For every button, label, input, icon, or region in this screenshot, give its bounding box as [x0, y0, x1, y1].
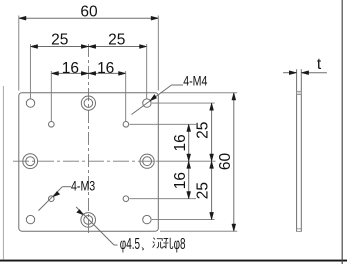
leader counterbore: diagonal line — [76, 207, 114, 245]
hole M3 upper-right — [123, 122, 129, 128]
leader counterbore: horizontal tail — [114, 244, 118, 246]
dimension 60 top: line — [19, 17, 159, 19]
label Chinese char chen (sink) — [153, 238, 164, 248]
dimension 25 vertical top: arrows — [210, 103, 214, 110]
dimension 16: center arrows — [81, 71, 88, 75]
hole M3 lower-left — [49, 196, 55, 202]
dimension 16: right arrow — [119, 71, 126, 75]
dimension 16: left extension line — [50, 71, 52, 121]
side view bar top cap — [297, 91, 302, 94]
hole M4 top-left — [26, 99, 34, 107]
svg-text:φ8: φ8 — [174, 235, 186, 253]
vertical centerline — [88, 44, 90, 235]
dimension 60 top: right arrow — [151, 16, 158, 20]
plate outline — [19, 93, 159, 231]
svg-text:4-M3: 4-M3 — [71, 178, 95, 194]
svg-text:φ4.5: φ4.5 — [120, 235, 140, 253]
counterbore hole top — [81, 96, 95, 110]
counterbore hole right — [140, 154, 154, 168]
dimension 16: right extension line — [125, 71, 127, 121]
svg-text:16: 16 — [97, 60, 114, 77]
svg-text:4-M4: 4-M4 — [183, 73, 207, 89]
svg-text:25: 25 — [195, 182, 212, 199]
dimension 25: left arrow — [30, 45, 37, 49]
leader 4-M3: horizontal tail — [62, 186, 71, 188]
svg-text:16: 16 — [172, 134, 189, 151]
dimension 60 vertical: arrows — [232, 93, 236, 100]
hole M4 bottom-left — [26, 215, 34, 223]
dimension 25: left extension line — [29, 44, 31, 99]
dimension 25: right extension line — [146, 44, 148, 99]
leader 4-M4: arrowhead — [150, 94, 157, 100]
dimension 16 vertical: arrows — [187, 124, 191, 131]
dimension t: right arrow — [301, 71, 308, 75]
svg-text:25: 25 — [108, 32, 125, 49]
label Chinese char kong (hole) — [163, 238, 172, 249]
dimension 16: left arrow — [51, 71, 58, 75]
right side extension line plate top edge — [160, 92, 237, 94]
dimension 25: right arrow — [140, 45, 147, 49]
leader 4-M3: arrowhead — [53, 191, 59, 196]
dimension t: left line — [283, 72, 296, 74]
dimension 60 top: left extension line — [18, 16, 20, 91]
dimension t: left arrow — [289, 71, 296, 75]
label fullwidth comma — [141, 247, 144, 251]
svg-text:60: 60 — [217, 153, 234, 171]
right side extension line plate bottom edge — [160, 230, 237, 232]
dimension 16 vertical: line — [188, 124, 190, 198]
leader 4-M4: horizontal tail — [172, 84, 184, 86]
dimension 25 left top: line — [30, 46, 146, 48]
center row extension line — [156, 160, 216, 162]
sheet border bottom — [0, 260, 347, 262]
dimension 25 vertical: line — [211, 103, 213, 220]
svg-text:25: 25 — [195, 122, 212, 139]
counterbore hole bottom — [81, 213, 96, 228]
counterbore hole left — [23, 154, 38, 169]
dimension t: right line — [301, 72, 327, 74]
dimension 60 vertical: line — [233, 93, 235, 231]
svg-text:t: t — [317, 56, 322, 73]
side view bar right edge — [300, 69, 302, 231]
svg-text:16: 16 — [62, 60, 79, 77]
sheet border right — [342, 0, 343, 264]
right side extension line row M4 bottom — [152, 219, 215, 221]
hole M3 lower-right — [123, 196, 129, 202]
svg-text:25: 25 — [51, 32, 68, 49]
dimension 60 top: right extension line — [157, 16, 159, 91]
hole M4 bottom-right — [143, 215, 151, 223]
side view bar bottom cap — [297, 229, 302, 232]
leader 4-M4: diagonal line — [132, 85, 172, 115]
right side extension line row M4 top — [152, 102, 215, 104]
side view bar left edge — [296, 69, 298, 231]
sheet border left — [3, 86, 4, 260]
right side extension line row M3 upper — [130, 123, 197, 125]
horizontal centerline — [13, 160, 156, 162]
dimension 60 top: left arrow — [19, 16, 26, 20]
dimension 25: center arrows — [81, 45, 88, 49]
leader 4-M3: diagonal line — [39, 187, 63, 211]
svg-text:60: 60 — [80, 4, 98, 21]
svg-text:16: 16 — [172, 172, 189, 189]
leader counterbore: arrowhead — [77, 209, 83, 214]
dimension 16 top: line — [51, 72, 125, 74]
right side extension line row M3 lower — [130, 198, 197, 200]
hole M3 upper-left — [49, 122, 55, 128]
hole M4 top-right — [143, 99, 151, 107]
